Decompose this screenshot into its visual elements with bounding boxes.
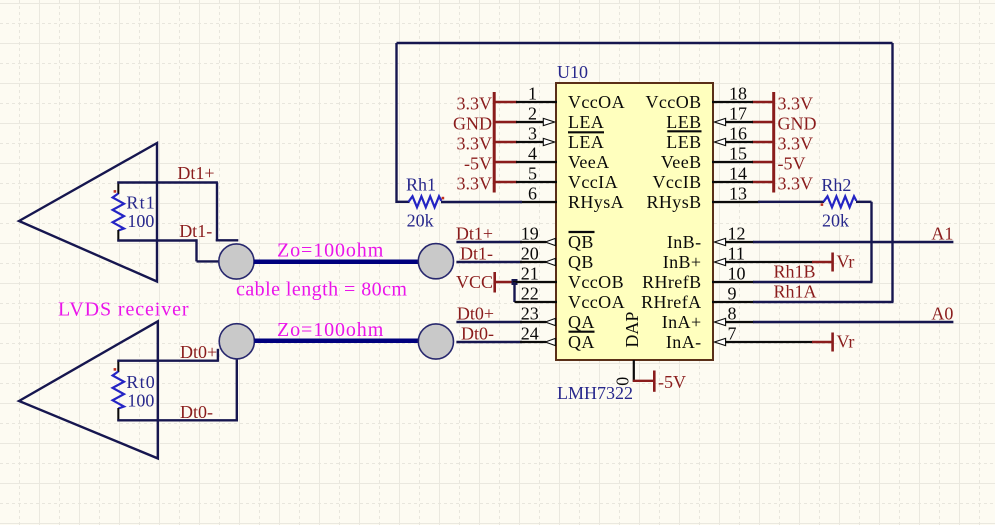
svg-text:RHrefB: RHrefB (642, 272, 701, 292)
power wire 3.3V to pin row y=182 (494, 181, 517, 183)
wire Dt1- horizontal from Rt1 bottom (117, 239, 197, 241)
wire DAP to -5V bar (633, 380, 654, 382)
pin 18 stub (712, 101, 753, 103)
svg-text:Rt1: Rt1 (126, 193, 156, 213)
svg-text:Dt1-: Dt1- (179, 221, 212, 241)
svg-text:-5V: -5V (464, 153, 492, 173)
svg-text:100: 100 (127, 211, 154, 231)
power bar right (pins 18-14) (772, 92, 775, 193)
wire Dt1+ from cable to pin (456, 241, 522, 243)
wire Dt1+ horizontal from Rt1 top (117, 181, 218, 183)
svg-text:5: 5 (528, 164, 537, 184)
wire junction to pin 21 (513, 281, 557, 283)
svg-text:QA: QA (568, 332, 595, 352)
power wire 3.3V to pin row y=102 (494, 101, 517, 103)
resistor Rt0 top lead (117, 361, 119, 372)
pin 17 stub (725, 121, 753, 123)
wire Dt0- vertical from cable connector bottom (236, 359, 238, 422)
pin 17 input arrow (714, 118, 725, 125)
wire RHrefB to Rh2 vertical (753, 281, 873, 283)
LVDS receiver amplifier triangle (bottom) (19, 321, 158, 458)
svg-text:24: 24 (521, 324, 539, 344)
power wire GND to pin row y=122 (494, 121, 517, 123)
svg-text:VccIA: VccIA (568, 172, 618, 192)
svg-text:Dt0+: Dt0+ (180, 342, 217, 362)
wire Rh1 to pin 6 (441, 201, 522, 203)
svg-text:Vr: Vr (837, 331, 855, 351)
svg-text:VccOB: VccOB (568, 272, 624, 292)
svg-text:Zo=100ohm: Zo=100ohm (277, 319, 384, 341)
VCC wire to junction (495, 281, 513, 283)
cable 0 left connector circle (219, 324, 254, 359)
svg-text:GND: GND (453, 113, 492, 133)
svg-text:RHysA: RHysA (568, 192, 624, 212)
wire top loop horizontal (397, 42, 893, 44)
svg-text:LEB: LEB (666, 112, 701, 132)
pin 2 stub (516, 121, 544, 123)
svg-text:A1: A1 (931, 224, 953, 244)
svg-text:RHysB: RHysB (646, 192, 701, 212)
svg-text:InA-: InA- (666, 332, 702, 352)
wire to pin 22 (515, 301, 558, 303)
pin 3 stub (516, 141, 544, 143)
svg-text:4: 4 (528, 144, 537, 164)
wire Dt1- from cable to pin (456, 261, 522, 263)
pin 7 stub (725, 341, 813, 343)
pin 11 input arrow (714, 258, 725, 265)
svg-text:QA: QA (568, 312, 595, 332)
svg-text:10: 10 (728, 264, 746, 284)
svg-text:Dt0-: Dt0- (461, 324, 494, 344)
power wire GND right to pin row y=122 (752, 121, 774, 123)
svg-text:GND: GND (778, 113, 817, 133)
svg-text:12: 12 (728, 224, 746, 244)
svg-text:QB: QB (568, 232, 594, 252)
svg-text:0: 0 (612, 377, 632, 386)
svg-text:VccOA: VccOA (568, 292, 625, 312)
svg-text:3.3V: 3.3V (457, 133, 493, 153)
svg-text:Dt0-: Dt0- (180, 402, 213, 422)
svg-text:LEA: LEA (568, 132, 604, 152)
wire Dt0+ from cable to pin (456, 321, 522, 323)
pin stub with output arrow y=342 (520, 341, 546, 343)
power wire -5V right to pin row y=162 (752, 161, 774, 163)
pin 14 stub (712, 181, 753, 183)
pin 12 input arrow (714, 238, 725, 245)
cable 1 left connector circle (219, 244, 254, 279)
power wire 3.3V right to pin row y=182 (752, 181, 774, 183)
svg-text:20k: 20k (822, 210, 849, 230)
pin 2 input arrow (543, 118, 554, 125)
resistor Rh2 zigzag (824, 196, 857, 207)
svg-text:Rh2: Rh2 (821, 175, 851, 195)
svg-text:VCC: VCC (456, 272, 493, 292)
svg-text:InB-: InB- (667, 232, 702, 252)
svg-text:8: 8 (728, 304, 737, 324)
svg-text:LEA: LEA (568, 112, 604, 132)
svg-text:100: 100 (127, 390, 154, 410)
svg-text:RHrefA: RHrefA (641, 292, 701, 312)
LVDS receiver amplifier triangle (top) (19, 143, 157, 282)
svg-text:Zo=100ohm: Zo=100ohm (277, 240, 384, 262)
svg-text:U10: U10 (557, 62, 588, 82)
wire pin 13 to Rh2 (758, 201, 824, 203)
pin 8 stub (725, 321, 754, 323)
svg-text:6: 6 (528, 184, 537, 204)
pin stub with output arrow y=262 (520, 261, 546, 263)
svg-text:3.3V: 3.3V (457, 173, 493, 193)
pin 10 stub (712, 281, 754, 283)
svg-text:InB+: InB+ (663, 252, 702, 272)
pin 7 input arrow (714, 338, 725, 345)
pin 3 input arrow (543, 138, 554, 145)
wire Rh2 right end (856, 201, 872, 203)
pin 1 stub (516, 101, 557, 103)
wire from loop to Rh1 (397, 201, 410, 203)
pin 15 stub (712, 161, 753, 163)
svg-text:3: 3 (528, 124, 537, 144)
resistor Rt1 pin1 dot (114, 190, 117, 193)
active-low bar over LEA pin 3 (568, 131, 604, 133)
wire RHrefA to loop vertical (753, 301, 894, 303)
svg-text:Dt1+: Dt1+ (456, 224, 493, 244)
pin 5 stub (516, 181, 557, 183)
cable 1 right connector circle (418, 244, 453, 279)
resistor Rh1 pin dot (442, 197, 445, 200)
pin stub with output arrow y=322 (520, 321, 546, 323)
-5V power bar (DAP) (653, 371, 656, 392)
wire pin 7 to Vr bar (812, 341, 832, 343)
svg-text:13: 13 (729, 184, 747, 204)
svg-text:7: 7 (728, 324, 737, 344)
svg-text:20: 20 (521, 244, 539, 264)
svg-text:VeeA: VeeA (568, 152, 610, 172)
wire top loop left vertical (395, 43, 397, 203)
svg-text:-5V: -5V (658, 372, 686, 392)
svg-text:VeeB: VeeB (661, 152, 702, 172)
svg-text:15: 15 (729, 144, 747, 164)
svg-text:InA+: InA+ (662, 312, 702, 332)
svg-text:DAP: DAP (622, 312, 642, 348)
wire Dt0+ horizontal from Rt0 top (117, 360, 219, 362)
wire Dt1- into cable connector left (197, 260, 220, 262)
svg-text:3.3V: 3.3V (778, 173, 814, 193)
svg-text:18: 18 (729, 84, 747, 104)
svg-text:-5V: -5V (778, 153, 806, 173)
active-low bar over QB pin 19 (569, 231, 595, 233)
cable 0 right connector circle (418, 324, 453, 359)
svg-text:VccIB: VccIB (653, 172, 702, 192)
svg-text:22: 22 (521, 284, 539, 304)
pin stub with output arrow y=242 (520, 241, 546, 243)
svg-text:QB: QB (568, 252, 594, 272)
wire Dt1+ vertical down (216, 183, 218, 242)
active-low bar over QA pin 24 (569, 331, 595, 333)
svg-text:Dt1+: Dt1+ (177, 163, 214, 183)
svg-text:3.3V: 3.3V (457, 93, 493, 113)
svg-text:21: 21 (521, 264, 539, 284)
svg-text:VccOB: VccOB (646, 92, 702, 112)
pin 6 stub (520, 201, 557, 203)
Vr power bar (pin 7) (831, 333, 834, 352)
cable 0 coax line (254, 339, 418, 344)
svg-text:Rh1: Rh1 (406, 175, 436, 195)
op-amp comparator U10 body (556, 83, 713, 360)
active-low bar over LEB pin 16 (667, 130, 701, 132)
svg-text:3.3V: 3.3V (778, 93, 814, 113)
svg-text:16: 16 (729, 124, 747, 144)
svg-text:14: 14 (729, 164, 747, 184)
svg-text:LEB: LEB (666, 132, 701, 152)
svg-text:23: 23 (521, 304, 539, 324)
wire top loop right vertical (891, 43, 893, 302)
pin 13 stub (712, 201, 760, 203)
wire Dt1- vertical down (195, 239, 197, 261)
pin 9 stub (712, 301, 754, 303)
svg-text:Dt1-: Dt1- (460, 244, 493, 264)
power wire 3.3V right to pin row y=102 (752, 101, 774, 103)
power wire 3.3V right to pin row y=142 (752, 141, 774, 143)
svg-text:A0: A0 (931, 304, 953, 324)
svg-text:11: 11 (728, 244, 745, 264)
resistor Rh1 zigzag (409, 196, 442, 207)
cable 1 coax line (254, 260, 419, 265)
svg-text:1: 1 (528, 84, 537, 104)
wire Dt0- from cable to pin (456, 341, 522, 343)
pin 4 stub (516, 161, 557, 163)
pin 11 stub (725, 261, 813, 263)
wire InB- to A1 (753, 241, 953, 243)
power wire 3.3V to pin row y=142 (494, 141, 517, 143)
pin 16 stub (725, 141, 753, 143)
svg-text:17: 17 (729, 104, 747, 124)
wire junction down to pin 22 row (513, 282, 515, 302)
pin 8 input arrow (714, 318, 725, 325)
resistor Rh2 pin dot (821, 203, 824, 206)
svg-text:cable length = 80cm: cable length = 80cm (236, 278, 407, 300)
svg-text:2: 2 (528, 104, 537, 124)
svg-text:Rh1B: Rh1B (774, 262, 816, 282)
pin 12 stub (725, 241, 754, 243)
VCC power bar (493, 272, 496, 293)
wire pin 11 to Vr bar (812, 261, 832, 263)
Vr power bar (pin 11) (831, 253, 834, 272)
resistor Rt1 zigzag (113, 194, 124, 231)
wire Dt0- horizontal to Rt0 bottom (117, 419, 238, 421)
wire Rh2 down to pin 10 row (870, 202, 872, 282)
svg-text:9: 9 (728, 284, 737, 304)
resistor Rt1 bottom lead (117, 230, 119, 242)
wire InA+ to A0 (753, 321, 953, 323)
resistor Rt0 zigzag (113, 372, 124, 409)
svg-text:VccOA: VccOA (568, 92, 625, 112)
junction dot VCC node (512, 279, 518, 285)
svg-text:20k: 20k (407, 210, 434, 230)
svg-text:19: 19 (521, 224, 539, 244)
svg-text:LVDS receiver: LVDS receiver (58, 298, 189, 320)
svg-text:Vr: Vr (837, 251, 855, 271)
wire Dt0+ vertical up to cable connector (217, 349, 219, 361)
svg-text:Dt0+: Dt0+ (457, 304, 494, 324)
svg-text:3.3V: 3.3V (778, 133, 814, 153)
svg-text:Rt0: Rt0 (126, 372, 156, 392)
power bar left (pins 1-5) (493, 92, 496, 193)
pin 16 input arrow (714, 138, 725, 145)
resistor Rt0 pin1 dot (114, 368, 117, 371)
svg-text:Rh1A: Rh1A (774, 282, 817, 302)
resistor Rt1 top lead (117, 182, 119, 195)
power wire -5V to pin row y=162 (494, 161, 517, 163)
resistor Rt0 bottom lead (117, 408, 119, 421)
wire Dt1+ stub onto cable connector top (216, 239, 239, 241)
pin DAP stub down from IC (633, 360, 635, 382)
